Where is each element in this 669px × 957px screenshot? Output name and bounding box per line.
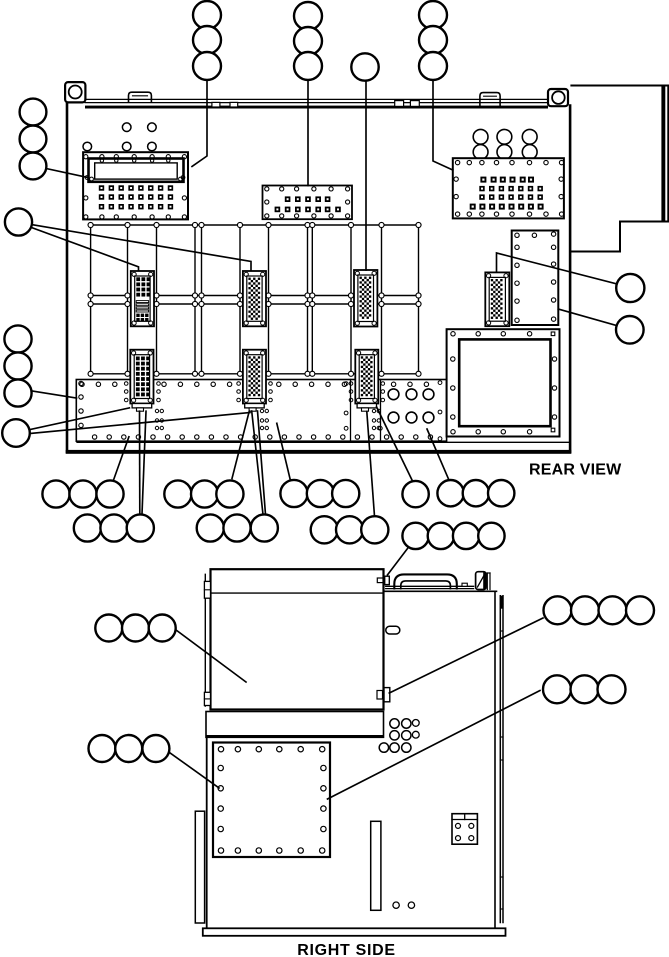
callout balloon bbox=[142, 735, 169, 762]
callout balloon bbox=[4, 325, 31, 352]
right riveted plate bbox=[512, 231, 559, 326]
callout balloon bbox=[543, 675, 571, 703]
rim clip bbox=[462, 583, 467, 586]
callout balloon bbox=[599, 596, 627, 624]
right-side access panel bbox=[213, 743, 330, 858]
strip divider right bbox=[380, 380, 382, 442]
leader from left chain F to panel P1 bbox=[46, 169, 86, 178]
vent hole circles upper-left bbox=[122, 123, 131, 132]
leader from strip to balloon row1 mid-right bbox=[277, 423, 291, 481]
right-side cabinet right edge inner bbox=[494, 591, 496, 928]
callout balloon bbox=[191, 480, 218, 507]
callout balloon bbox=[20, 99, 47, 126]
callout balloon bbox=[280, 480, 307, 507]
callout balloon bbox=[115, 735, 142, 762]
leader from bottom-left chain to access panel bbox=[170, 753, 220, 789]
leader from connector J7 foot to single balloon bbox=[377, 407, 413, 481]
right-side two small holes bbox=[393, 902, 399, 908]
leader from balloon E to connector J2 bbox=[32, 225, 252, 271]
leader from balloon row4 to right-side latch bbox=[388, 549, 408, 575]
callout balloon bbox=[361, 516, 388, 543]
right-side narrow door strip left bbox=[195, 811, 204, 923]
callout balloon bbox=[419, 52, 447, 80]
callout balloon bbox=[428, 523, 454, 549]
callout balloon bbox=[96, 480, 123, 507]
right-side box hinge clip bottom bbox=[204, 692, 210, 705]
callout balloon bbox=[193, 52, 221, 80]
strip rivets left column bbox=[79, 381, 83, 385]
rail tab right bbox=[480, 93, 500, 106]
rear-view cabinet right edge bbox=[569, 106, 572, 453]
callout balloon bbox=[419, 26, 447, 54]
panel P1 rivets bbox=[84, 155, 88, 159]
callout balloon bbox=[223, 514, 250, 541]
strip rivets bottom row bbox=[92, 435, 96, 439]
callout balloon bbox=[74, 514, 101, 541]
rear-view cabinet top-right corner bracket bbox=[548, 89, 568, 106]
frame grid rivet circles bbox=[88, 222, 93, 227]
leader from left balloon H to connector J5 foot bbox=[30, 408, 129, 430]
callout balloon bbox=[402, 481, 428, 507]
big opening panel rivets bbox=[451, 332, 455, 336]
panel P2 rivets bbox=[265, 187, 269, 191]
right protrusion bbox=[571, 86, 668, 252]
callout balloon bbox=[69, 480, 96, 507]
right-side box mid latch bbox=[377, 691, 383, 700]
strip six holes bbox=[388, 389, 399, 400]
callout balloon bbox=[5, 208, 32, 235]
callout balloon bbox=[20, 153, 47, 180]
callout balloon bbox=[544, 596, 572, 624]
callout balloon bbox=[216, 480, 243, 507]
svg-text:REAR VIEW: REAR VIEW bbox=[529, 462, 622, 479]
frame grid vertical rails bbox=[90, 225, 92, 374]
right-side cabinet top rim bbox=[386, 585, 474, 587]
callout balloon bbox=[488, 480, 514, 506]
right-side vent holes bbox=[390, 719, 399, 728]
callout balloon bbox=[4, 379, 31, 406]
access panel rivets bbox=[218, 747, 223, 752]
connector J5 lower bbox=[130, 350, 153, 404]
leader from balloons B to panel P2 bbox=[307, 81, 309, 186]
callout balloon bbox=[20, 126, 47, 153]
panel P1 window recess bbox=[89, 159, 184, 182]
right-side hinge bracket bbox=[452, 814, 477, 845]
callout balloon bbox=[2, 419, 30, 447]
callout balloon bbox=[336, 516, 363, 543]
rear-view cabinet bottom band bbox=[66, 450, 572, 454]
callout balloon bbox=[332, 480, 359, 507]
callout balloon bbox=[351, 53, 378, 80]
callout balloon bbox=[89, 735, 116, 762]
leader from right balloon R1 to connector J4 bbox=[497, 253, 617, 284]
callout balloon bbox=[294, 2, 322, 30]
leader from right balloon R2 to right plate bbox=[558, 309, 616, 326]
rear-view top rail bbox=[85, 98, 548, 100]
connector J2 upper bbox=[243, 271, 266, 326]
strip rivets top row bbox=[80, 382, 84, 386]
panel P3 rivets bbox=[455, 160, 459, 164]
strip foot cluster rivets bbox=[155, 409, 158, 412]
callout balloon bbox=[122, 615, 149, 642]
right-side box top band line bbox=[211, 592, 384, 594]
frame grid horizontal rails bbox=[91, 224, 419, 226]
rail clip c bbox=[395, 101, 404, 107]
leader from strip to right trio bbox=[427, 429, 450, 481]
panel P1 outline bbox=[83, 152, 188, 219]
callout balloon bbox=[4, 352, 31, 379]
rail tab left bbox=[129, 92, 152, 102]
panel P2 outline bbox=[263, 186, 353, 220]
rail clip d bbox=[410, 101, 419, 107]
callout balloon bbox=[437, 480, 463, 506]
right plate rivets bbox=[515, 233, 519, 237]
panel P3 outline bbox=[453, 158, 564, 218]
connector J7 lower bbox=[355, 350, 378, 404]
leader from mid-left chain into box bbox=[175, 630, 246, 683]
six-hole plate extra rivets bbox=[344, 382, 348, 386]
callout balloon bbox=[311, 516, 338, 543]
callout balloon bbox=[164, 480, 191, 507]
callout balloon bbox=[402, 523, 428, 549]
callout balloon bbox=[463, 480, 489, 506]
callout balloon bbox=[616, 316, 644, 344]
bottom riveted strip bbox=[76, 380, 446, 442]
carrying handle bbox=[394, 574, 457, 588]
callout balloon bbox=[149, 615, 176, 642]
rail clip a bbox=[212, 102, 220, 107]
right-side tray under box bbox=[206, 712, 384, 738]
leaders from connector J6 foot to balloons bbox=[232, 411, 249, 479]
callout balloon bbox=[571, 675, 599, 703]
vent circles above panel P3 bbox=[473, 129, 488, 144]
leader from right three-chain to access panel bbox=[328, 691, 541, 800]
right-side box hinge clip top bbox=[204, 581, 210, 598]
callout balloon bbox=[478, 523, 504, 549]
right-side cabinet top edge bbox=[384, 590, 497, 592]
panel P2 pin squares bbox=[285, 196, 291, 202]
right-side spigot bbox=[386, 626, 400, 634]
leader from connector J7 foot to balloon bbox=[367, 412, 375, 517]
callout balloon bbox=[197, 514, 224, 541]
rear-view cabinet left edge bbox=[66, 102, 69, 453]
connector J3 upper bbox=[354, 270, 377, 327]
callout balloon bbox=[571, 596, 599, 624]
callout balloon bbox=[294, 52, 322, 80]
big opening panel bbox=[447, 329, 560, 436]
callout balloon bbox=[95, 615, 122, 642]
callout balloon bbox=[251, 514, 278, 541]
rear-view cabinet inner bottom line bbox=[77, 441, 569, 443]
rail clip b bbox=[230, 102, 238, 107]
strip divider left bbox=[350, 380, 352, 442]
callout balloon bbox=[307, 480, 334, 507]
callout balloon bbox=[453, 523, 479, 549]
leaders from connector J5 foot to balloon bbox=[139, 411, 141, 514]
connector J4 upper bbox=[485, 272, 509, 326]
connector J1 upper bbox=[131, 271, 154, 326]
callout balloon bbox=[598, 675, 626, 703]
right-side cabinet door edge strip bbox=[499, 596, 501, 923]
callout balloon bbox=[100, 514, 127, 541]
rear-view cabinet top-left corner bracket bbox=[65, 82, 85, 102]
callout balloon bbox=[127, 514, 154, 541]
leader from left balloon H to connector J6 foot bbox=[29, 413, 250, 434]
right-side cabinet bottom band bbox=[203, 928, 506, 936]
right-side top bracket second bbox=[486, 573, 488, 590]
panel P3 pin squares bbox=[480, 177, 486, 183]
right-side big box bbox=[211, 569, 384, 709]
right-side top bracket bbox=[476, 572, 487, 590]
leader from balloon E to connector J1 bbox=[32, 228, 139, 271]
callout balloon bbox=[626, 596, 654, 624]
callout balloon bbox=[616, 274, 644, 302]
leader from left chain G to strip bbox=[32, 391, 77, 398]
callout balloon bbox=[294, 27, 322, 55]
panel P1 pin squares bbox=[99, 185, 104, 190]
right-side box hinge line bbox=[204, 574, 206, 706]
strip connector flank rivets bbox=[124, 382, 128, 386]
right-side box top latch bbox=[377, 578, 383, 583]
leader from right four-chain to mid latch bbox=[389, 618, 543, 693]
callout balloon bbox=[42, 480, 69, 507]
callout balloon bbox=[193, 26, 221, 54]
callout balloon bbox=[193, 1, 221, 29]
leader from balloons A to panel P1 bbox=[192, 81, 207, 167]
svg-text:RIGHT SIDE: RIGHT SIDE bbox=[297, 942, 396, 957]
right-side cabinet left edge bbox=[206, 738, 208, 929]
connector J6 lower bbox=[243, 350, 266, 404]
leader from balloons D to panel P3 bbox=[433, 81, 453, 171]
right-side slot bbox=[371, 821, 381, 910]
leader from balloon C to connector J3 bbox=[365, 81, 367, 270]
leader from strip to balloon row1 left bbox=[113, 437, 129, 482]
callout balloon bbox=[419, 1, 447, 29]
